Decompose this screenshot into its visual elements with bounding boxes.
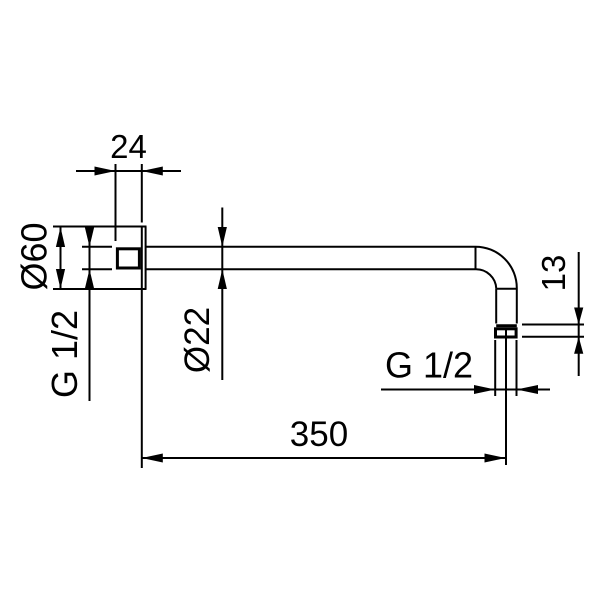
svg-text:G 1/2: G 1/2: [44, 310, 85, 398]
nozzle extension line right: [516, 340, 518, 396]
extension line left of 24: [115, 164, 117, 241]
dimension line G 1/2 bottom: [381, 389, 550, 391]
bend inner arc: [476, 269, 497, 289]
arrow 350 right: [485, 454, 506, 463]
arrow Ø22 lower: [218, 269, 227, 289]
flange left edge / G 1/2 dimension line: [89, 227, 91, 402]
dimension line 24: [76, 170, 181, 172]
arrow 24 right: [142, 167, 163, 176]
Ø22 dimension line: [221, 208, 223, 381]
flange face outer line: [145, 227, 147, 290]
arrow Ø22 upper: [218, 227, 227, 247]
extension line 350 left: [141, 289, 143, 468]
vertical pipe right edge: [516, 288, 518, 324]
bend tangent chord upper: [475, 247, 477, 270]
extension line 13 top: [522, 324, 584, 326]
svg-text:13: 13: [535, 255, 572, 292]
arrow 13 lower: [574, 337, 583, 354]
arrow Ø60 down: [56, 269, 65, 289]
nozzle extension line left: [494, 340, 496, 396]
svg-text:G 1/2: G 1/2: [385, 345, 473, 386]
extension line right of 24: [141, 164, 143, 223]
svg-text:24: 24: [110, 128, 147, 165]
arrow G 1/2 left upper: [85, 228, 94, 247]
bend tangent chord lower: [496, 288, 517, 290]
svg-text:350: 350: [290, 415, 348, 454]
pipe bottom line: [147, 268, 476, 270]
bend outer arc: [476, 247, 517, 288]
flange top edge with Ø60 extension: [53, 226, 147, 228]
svg-text:Ø60: Ø60: [13, 222, 54, 290]
pipe top line: [147, 246, 476, 248]
arrow Ø60 up: [56, 227, 65, 247]
arrow G 1/2 bottom left: [474, 385, 495, 394]
extension line 13 bottom: [522, 336, 584, 338]
thread stub bottom line: [82, 268, 112, 270]
thread square in flange: [117, 249, 139, 268]
outlet centre line: [505, 329, 507, 465]
nozzle top bar: [496, 324, 517, 327]
thread stub top line: [82, 246, 112, 248]
arrow 24 left: [95, 167, 116, 176]
arrow G 1/2 left lower: [85, 269, 94, 288]
vertical pipe left edge: [495, 289, 497, 324]
svg-text:Ø22: Ø22: [178, 307, 217, 373]
arrow 350 left: [142, 454, 163, 463]
flange bottom edge with Ø60 extension: [53, 288, 147, 290]
arrow G 1/2 bottom right: [517, 385, 539, 394]
dimension line 13: [578, 252, 580, 376]
dimension line Ø60: [60, 227, 62, 289]
dimension line 350: [142, 457, 506, 459]
arrow 13 upper: [574, 308, 583, 325]
nozzle body: [496, 329, 517, 337]
flange face inner line: [141, 227, 143, 290]
